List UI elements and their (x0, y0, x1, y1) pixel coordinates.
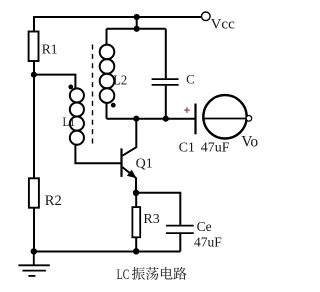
wire second rail (107, 28, 166, 30)
polarity dot L2 (111, 103, 116, 108)
svg-text:47uF: 47uF (201, 141, 230, 156)
wire L2 bottom stub (106, 103, 108, 119)
wire mid rail collector/output (107, 118, 196, 120)
wire L2 top stub (106, 29, 108, 45)
terminal Vo (246, 116, 252, 122)
node dot top rail (134, 14, 140, 20)
wire left rail upper (33, 16, 35, 32)
capacitor Ce (166, 226, 194, 234)
node dot second rail (134, 26, 140, 32)
svg-text:47uF: 47uF (194, 234, 222, 249)
resistor R2 (29, 178, 39, 207)
Vcc terminal (202, 12, 211, 21)
transistor Q1 emitter diagonal (122, 167, 136, 178)
wire collector vertical (122, 119, 136, 156)
svg-text:R1: R1 (42, 41, 58, 56)
wire R3 bottom stub (135, 237, 137, 252)
node dot R1-L1 branch (31, 72, 37, 78)
wire emitter node to Ce branch (136, 193, 180, 225)
wire output diameter line (202, 118, 246, 120)
wire left rail lower (33, 208, 35, 253)
polarity dot L1 (68, 85, 73, 90)
wire C bottom stub (165, 86, 167, 119)
svg-text:Ce: Ce (197, 219, 212, 234)
resistor R3 (132, 207, 140, 237)
wire C top stub (165, 29, 167, 79)
wire branch to L1 (34, 75, 75, 89)
wire left rail middle (33, 61, 35, 179)
node dot bottom left (31, 248, 37, 254)
node dot emitter (133, 190, 139, 196)
svg-text:C: C (186, 71, 195, 86)
transformer core dashed line (92, 45, 94, 145)
transistor Q1 base bar (120, 148, 122, 177)
capacitor C1 plate (194, 104, 196, 135)
svg-text:R2: R2 (45, 193, 62, 209)
svg-text:Vo: Vo (241, 133, 258, 150)
svg-text:L1: L1 (63, 114, 76, 129)
caption CJK 振荡电路 (132, 267, 187, 280)
wire top rail (33, 16, 202, 18)
transistor Q1 emitter arrowhead (128, 171, 136, 178)
svg-text:Vcc: Vcc (211, 16, 235, 32)
svg-text:LC: LC (117, 267, 130, 283)
output transducer circle (203, 95, 246, 138)
capacitor C (152, 79, 179, 85)
ground (18, 252, 49, 276)
svg-text:C1: C1 (179, 141, 195, 156)
svg-text:Q1: Q1 (136, 156, 153, 171)
inductor L1 (70, 88, 84, 144)
inductor L2 (100, 45, 115, 103)
wire R3 top stub (135, 193, 137, 208)
label plus polarity (184, 107, 190, 113)
wire Vcc drop to second rail (136, 17, 138, 29)
svg-text:L2: L2 (113, 73, 127, 88)
resistor R1 (29, 32, 39, 62)
wire L1 bottom to base (75, 145, 120, 164)
wire Ce bottom stub (179, 234, 181, 252)
node dot collector (133, 116, 139, 122)
svg-text:R3: R3 (143, 212, 159, 227)
wire bottom rail (34, 251, 181, 253)
node dot bottom R3 (133, 248, 139, 254)
node dot C bottom (163, 116, 169, 122)
wire emitter vertical (135, 178, 137, 194)
